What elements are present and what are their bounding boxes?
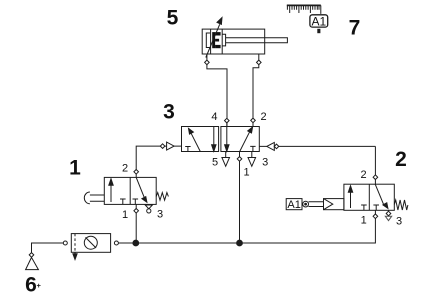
svg-text:1: 1 <box>69 157 81 180</box>
svg-text:A1: A1 <box>311 14 326 28</box>
svg-text:3: 3 <box>163 101 175 124</box>
svg-text:5: 5 <box>212 156 218 168</box>
svg-text:3: 3 <box>262 157 268 169</box>
svg-text:3: 3 <box>157 209 163 221</box>
svg-text:1: 1 <box>361 214 367 226</box>
svg-text:2: 2 <box>395 148 407 171</box>
svg-text:5: 5 <box>167 6 179 29</box>
svg-text:2: 2 <box>261 111 267 123</box>
svg-text:2: 2 <box>360 169 366 181</box>
svg-text:+: + <box>37 281 42 290</box>
svg-text:6: 6 <box>25 274 37 297</box>
svg-text:3: 3 <box>396 216 402 228</box>
svg-text:4: 4 <box>211 111 217 123</box>
svg-text:A1: A1 <box>287 199 300 211</box>
svg-text:7: 7 <box>349 17 361 40</box>
svg-text:1: 1 <box>243 167 249 179</box>
svg-text:2: 2 <box>122 163 128 175</box>
svg-text:1: 1 <box>122 209 128 221</box>
